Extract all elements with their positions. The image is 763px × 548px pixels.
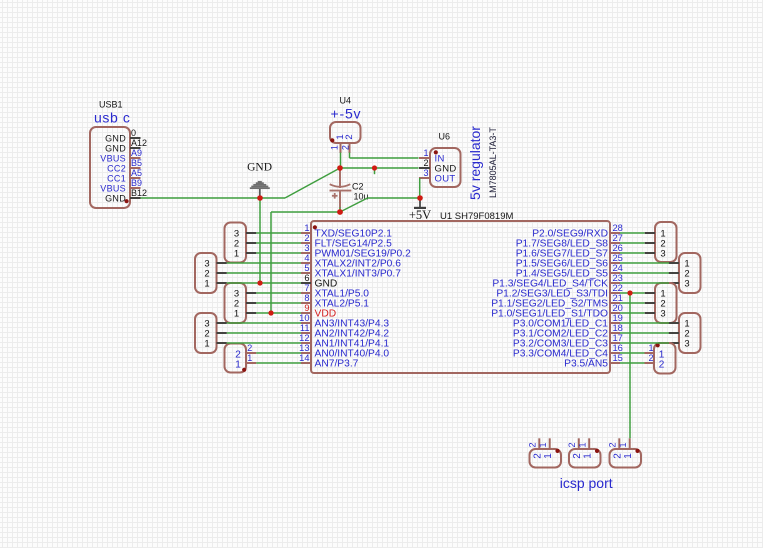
wire U1 pin16 to P5: [620, 352, 645, 354]
svg-text:2: 2: [344, 134, 355, 139]
U1 pin 26 number: [613, 243, 623, 253]
wire +5V node to diagonal: [368, 197, 420, 199]
U1 pin 15 name P3.5/AN5: [564, 359, 608, 370]
USB1 pin A12 number: [131, 138, 147, 148]
U1 pin 21 stub: [610, 302, 620, 304]
wire U1 pin22 net down to icsp: [629, 293, 631, 438]
U6 pin name GND: [435, 163, 457, 174]
svg-text:18: 18: [613, 323, 623, 333]
svg-text:2: 2: [304, 233, 309, 243]
svg-text:B9: B9: [131, 178, 142, 188]
svg-text:P3.5/AN5: P3.5/AN5: [564, 359, 608, 370]
svg-text:21: 21: [613, 293, 623, 303]
connector P1 pin name 2: [660, 238, 665, 249]
U1 pin 17 stub: [610, 342, 620, 344]
connector L2 pin name 2: [204, 268, 209, 279]
svg-text:1: 1: [582, 453, 593, 459]
connector P4 body: [679, 313, 701, 353]
USB1 pin name GND: [105, 133, 126, 143]
svg-text:1: 1: [247, 353, 252, 363]
wire U1 pin17 to P4: [620, 342, 669, 344]
svg-text:1: 1: [330, 145, 340, 150]
U1 pin 28 stub: [610, 232, 620, 234]
connector L5 pin-1 marker dot: [242, 368, 246, 372]
U1 pin 23 name P1.3/SEG4/LED_S4/TCK: [492, 279, 608, 290]
USB1 pin B9 (VBUS) stub: [130, 187, 141, 189]
svg-text:VBUS: VBUS: [100, 153, 126, 163]
wire L1 pin1 to U1 pin3: [256, 252, 301, 254]
connector P1 pin name 1: [660, 228, 665, 239]
wire L3 pin3 to U1 pin7: [256, 292, 301, 294]
connector P5 pin 2 stub: [645, 362, 655, 364]
svg-text:A9: A9: [131, 148, 142, 158]
connector L5 pin 2 number (outside): [247, 343, 252, 353]
svg-text:3: 3: [660, 308, 665, 319]
U6 pin 1 number: [423, 148, 428, 158]
U4 pin-1 marker dot: [330, 138, 334, 142]
U1 pin 7 name XTAL1/P5.0: [315, 289, 370, 300]
wire L4 pin3 to U1 pin10: [227, 322, 301, 324]
wire L3 pin1 to U1 pin9 VDD: [256, 312, 301, 314]
connector L4 pin name 3: [204, 318, 209, 329]
wire GND net: L2 pin1 to U1 pin6: [227, 282, 301, 284]
U6 pin 2 stub: [419, 167, 430, 169]
wire U4 pin2 drop: [349, 153, 351, 159]
wire U1 pin27 to P1: [620, 242, 645, 244]
wire U1 pin18 to P4: [620, 332, 669, 334]
svg-text:+-5v: +-5v: [331, 106, 362, 122]
svg-text:USB1: USB1: [99, 100, 123, 110]
U6 vertical label 5v regulator: [467, 126, 483, 200]
wire C2 bottom node left: [271, 211, 340, 213]
U1 pin 12 number: [299, 333, 309, 343]
connector J1 pin 1 number (outside): [538, 442, 548, 447]
USB1 pin 0 number: [131, 128, 136, 138]
connector J2 pin name 2: [572, 453, 583, 459]
svg-text:12: 12: [299, 333, 309, 343]
svg-text:3: 3: [684, 278, 689, 289]
USB1 pin B9 number: [131, 178, 142, 188]
connector P4 pin name 3: [684, 338, 689, 349]
connector P5 body: [654, 343, 676, 374]
U1 pin 25 stub: [610, 262, 620, 264]
USB1 pin B5 number: [131, 158, 142, 168]
connector J3 pin 2 number (outside): [608, 442, 618, 447]
connector P3 pin name 1: [660, 288, 665, 299]
IC U1 body: [311, 221, 610, 373]
connector P3 pin name 3: [660, 308, 665, 319]
connector L2 pin 1 stub: [217, 282, 227, 284]
U1 pin 6 name GND: [315, 279, 338, 290]
U1 pin 26 stub: [610, 252, 620, 254]
U6 vertical label LM7805AL-TA3-T: [488, 127, 498, 198]
U1 pin 20 number: [613, 303, 623, 313]
U1 pin 4 stub: [301, 262, 311, 264]
connector L1 pin name 2: [234, 238, 239, 249]
U1 pin 8 name XTAL2/P5.1: [315, 299, 370, 310]
svg-text:B5: B5: [131, 158, 142, 168]
connector P4 pin 3 stub: [669, 342, 679, 344]
U1 pin 23 number: [613, 273, 623, 283]
power symbol +5V: [414, 201, 426, 208]
U1 pin 15 stub: [610, 362, 620, 364]
USB1 pin A9 number: [131, 148, 142, 158]
connector J3 body: [610, 449, 642, 468]
connector P5 pin name 2: [659, 359, 665, 370]
capacitor C2 curved plate: [330, 184, 351, 187]
junction dot on GND-IN wire: [372, 165, 377, 170]
capacitor C2 bottom lead: [339, 191, 341, 212]
U1 pin-1 marker dot: [313, 225, 317, 229]
U1 pin 5 name XTALX1/INT3/P0.7: [315, 269, 402, 280]
wire U4 pin2 to U6 pin1 IN: [350, 157, 419, 159]
svg-text:24: 24: [613, 263, 623, 273]
connector P5 pin-1 marker dot: [656, 343, 660, 347]
connector L5 pin 1 number (outside): [247, 353, 252, 363]
junction dot GND/U4/C2 node: [337, 165, 343, 171]
U1 pin 25 number: [613, 253, 623, 263]
U1 pin 5 number: [304, 263, 309, 273]
USB1 pin name GND: [105, 143, 126, 153]
svg-text:2: 2: [659, 359, 665, 370]
USB1 pin B12 number: [131, 188, 147, 198]
wire L4 pin2 to U1 pin11: [227, 332, 301, 334]
U1 pin 28 name P2.0/SEG9/RXD: [532, 229, 608, 240]
U1 pin 20 stub: [610, 312, 620, 314]
U1 pin 3 stub: [301, 252, 311, 254]
connector P4 pin 1 stub: [669, 322, 679, 324]
U1 pin 27 number: [613, 233, 623, 243]
wire L1 pin2 to U1 pin2: [256, 242, 301, 244]
svg-text:U6: U6: [439, 132, 451, 142]
U1 pin 1 name TXD/SEG10P2.1: [315, 229, 393, 240]
connector L1 pin name 3: [234, 228, 239, 239]
svg-text:1: 1: [648, 343, 653, 353]
connector J3 pin name 2: [613, 453, 624, 459]
wire L3 pin2 to U1 pin8: [256, 302, 301, 304]
U1 pin 2 stub: [301, 242, 311, 244]
connector L2 pin 3 stub: [217, 262, 227, 264]
U1 pin 10 stub: [301, 322, 311, 324]
svg-text:1: 1: [235, 359, 241, 370]
svg-text:usb c: usb c: [94, 110, 130, 126]
svg-text:15: 15: [613, 353, 623, 363]
connector L3 pin 3 stub: [246, 292, 256, 294]
connector L4 pin 1 stub: [217, 342, 227, 344]
U4 value label +-5v: [331, 106, 362, 122]
connector L1 body: [225, 223, 247, 263]
USB1 pin name GND: [105, 193, 126, 203]
connector L3 pin 2 stub: [246, 302, 256, 304]
U1 pin 17 number: [613, 333, 623, 343]
svg-text:GND: GND: [247, 162, 272, 174]
svg-text:9: 9: [304, 303, 309, 313]
svg-text:2: 2: [572, 453, 583, 459]
USB1 pin B5 (CC2) stub: [130, 167, 141, 169]
connector J2 body: [569, 449, 601, 468]
connector P1 pin 3 stub: [645, 252, 655, 254]
U1 pin 13 number: [299, 343, 309, 353]
wire L2 pin3 to U1 pin4: [227, 262, 301, 264]
svg-text:13: 13: [299, 343, 309, 353]
U1 pin 6 stub: [301, 282, 311, 284]
svg-text:1: 1: [538, 442, 548, 447]
svg-text:3: 3: [684, 338, 689, 349]
svg-text:CC1: CC1: [107, 173, 126, 183]
U1 pin 14 name AN7/P3.7: [315, 359, 359, 370]
regulator U6 body: [430, 148, 461, 187]
svg-text:1: 1: [234, 248, 239, 259]
U1 pin 22 stub: [610, 292, 620, 294]
connector J2 pin 2 stub: [578, 438, 580, 449]
U1 pin 7 number: [304, 283, 309, 293]
connector J3 pin 1 stub: [629, 438, 631, 449]
junction dot VDD row: [268, 310, 273, 315]
connector P3 pin 3 stub: [645, 312, 655, 314]
USB1 pin A5 number: [131, 168, 142, 178]
U1 pin 16 name P3.3/COM4/LED_C4: [513, 349, 608, 360]
U1 pin 19 stub: [610, 322, 620, 324]
U1 pin 9 name VDD: [315, 309, 337, 320]
U1 pin 4 number: [304, 253, 309, 263]
svg-text:AN7/P3.7: AN7/P3.7: [315, 359, 359, 370]
U1 pin 24 number: [613, 263, 623, 273]
ground symbol: [250, 181, 270, 197]
U1 pin 28 number: [613, 223, 623, 233]
svg-text:1: 1: [204, 338, 209, 349]
U1 pin 11 stub: [301, 332, 311, 334]
U1 pin 11 name AN2/INT42/P4.2: [315, 329, 390, 340]
connector L5 pin name 2: [235, 349, 241, 360]
connector L2 body: [195, 253, 217, 293]
U1 pin 24 stub: [610, 272, 620, 274]
wire U1 pin26 to P1: [620, 252, 645, 254]
svg-text:2: 2: [341, 145, 351, 150]
wire stub below node on GND-IN wire: [374, 168, 376, 174]
power label +5V: [409, 208, 431, 222]
U1 pin 1 number: [304, 223, 309, 233]
junction dot icsp net: [627, 290, 632, 295]
USB1 pin 0 (GND) stub: [130, 137, 141, 139]
svg-text:25: 25: [613, 253, 623, 263]
wire vertical +5V to VDD row: [270, 212, 272, 313]
U4 reference label: [340, 96, 352, 106]
svg-text:CC2: CC2: [107, 163, 126, 173]
U6 pin 3 stub: [419, 177, 430, 179]
U1 pin 6 number: [304, 273, 309, 283]
wire L2 pin2 to U1 pin5: [227, 272, 301, 274]
wire GND net: USB B12 to corner: [141, 197, 286, 199]
U1 pin 21 name P1.1/SEG2/LED_S2/TMS: [491, 299, 608, 310]
U1 pin 17 name P3.2/COM3/LED_C3: [513, 339, 608, 350]
connector U4 body: [330, 122, 361, 143]
svg-text:1: 1: [543, 453, 554, 459]
connector P3 pin name 2: [660, 298, 665, 309]
connector L5 pin 1 stub: [246, 362, 256, 364]
connector L3 pin name 3: [234, 288, 239, 299]
connector L4 pin name 2: [204, 328, 209, 339]
connector P1 pin 2 stub: [645, 242, 655, 244]
svg-text:10u: 10u: [354, 192, 369, 202]
U6 pin name OUT: [435, 173, 456, 184]
svg-text:2: 2: [613, 453, 624, 459]
connector P2 pin name 2: [684, 268, 689, 279]
USB1 pin A5 (CC1) stub: [130, 177, 141, 179]
U1 pin 2 name FLT/SEG14/P2.5: [315, 239, 393, 250]
svg-text:U1 SH79F0819M: U1 SH79F0819M: [440, 211, 513, 222]
svg-text:10: 10: [299, 313, 309, 323]
svg-text:2: 2: [423, 158, 428, 168]
connector J2 pin 2 number (outside): [567, 442, 577, 447]
U6 reference label: [439, 132, 451, 142]
wire diagonal to C2 bottom node: [340, 198, 368, 212]
svg-text:2: 2: [247, 343, 252, 353]
svg-text:6: 6: [304, 273, 309, 283]
U1 pin 27 stub: [610, 242, 620, 244]
svg-text:3: 3: [423, 168, 428, 178]
capacitor C2 plus sign: [332, 193, 338, 199]
svg-text:2: 2: [608, 442, 618, 447]
U4 pin 1 number (outside): [330, 145, 340, 150]
connector P3 pin 2 stub: [645, 302, 655, 304]
svg-text:27: 27: [613, 233, 623, 243]
svg-text:5: 5: [304, 263, 309, 273]
wire U1 pin21 to P3: [620, 302, 645, 304]
wire L1 pin3 to U1 pin1: [256, 232, 301, 234]
connector J1 pin-1 marker dot: [555, 449, 559, 453]
USB1 pin name CC1: [107, 173, 126, 183]
svg-text:16: 16: [613, 343, 623, 353]
connector L1 pin name 1: [234, 248, 239, 259]
U1 pin 22 name P1.2/SEG3/LED_S3/TDI: [496, 289, 608, 300]
U1 pin 18 stub: [610, 332, 620, 334]
svg-text:1: 1: [623, 453, 634, 459]
wire GND net: diagonal up to U4/C2 node: [285, 168, 340, 198]
svg-text:5v regulator: 5v regulator: [467, 126, 483, 200]
svg-text:GND: GND: [105, 143, 126, 153]
svg-text:B12: B12: [131, 188, 147, 198]
U6 pin 3 number: [423, 168, 428, 178]
connector P2 pin 1 stub: [669, 262, 679, 264]
U4 pin 2 number (outside): [341, 145, 351, 150]
svg-text:7: 7: [304, 283, 309, 293]
svg-text:C2: C2: [352, 181, 364, 191]
U1 pin 16 stub: [610, 352, 620, 354]
svg-text:3: 3: [304, 243, 309, 253]
U1 pin 20 name P1.0/SEG1/LED_S1/TDO: [491, 309, 608, 320]
USB1 pin-1 marker dot: [125, 199, 129, 203]
connector P5 pin 1 stub: [645, 352, 655, 354]
connector J2 pin 1 stub: [588, 438, 590, 449]
label icsp port: [560, 475, 613, 491]
U1 pin 19 name P3.0/COM1/LED_C1: [513, 319, 608, 330]
U4 pin 1 stub: [340, 143, 342, 153]
U1 pin 12 stub: [301, 342, 311, 344]
connector L3 body: [225, 283, 247, 323]
connector J1 body: [530, 449, 562, 468]
svg-text:1: 1: [423, 148, 428, 158]
U4 pin name 1 (inside): [335, 134, 346, 139]
connector J2 pin 1 number (outside): [578, 442, 588, 447]
U1 pin 25 name P1.5/SEG6/LED_S6: [516, 259, 609, 270]
svg-text:+5V: +5V: [409, 208, 431, 222]
svg-text:2: 2: [528, 442, 538, 447]
connector J1 pin name 2: [533, 453, 544, 459]
U1 pin 18 number: [613, 323, 623, 333]
U1 pin 19 number: [613, 313, 623, 323]
svg-text:U4: U4: [340, 96, 352, 106]
U6 pin 2 number: [423, 158, 428, 168]
U1 pin 10 number: [299, 313, 309, 323]
svg-text:23: 23: [613, 273, 623, 283]
connector P5 pin 2 number (outside): [648, 353, 653, 363]
connector L1 pin 3 stub: [246, 232, 256, 234]
junction dot +5V node: [417, 195, 423, 201]
svg-text:14: 14: [299, 353, 309, 363]
U1 pin 8 stub: [301, 302, 311, 304]
svg-text:OUT: OUT: [435, 173, 456, 184]
U1 pin 24 name P1.4/SEG5/LED_S5: [516, 269, 609, 280]
ground label GND: [247, 162, 272, 174]
svg-text:17: 17: [613, 333, 623, 343]
wire GND net: U4 pin1 drop: [340, 153, 342, 169]
connector USB1 (usb c) body: [90, 127, 130, 208]
wire L4 pin1 to U1 pin12: [227, 342, 301, 344]
U1 pin 11 number: [300, 323, 310, 333]
connector L5 body: [225, 344, 247, 373]
U1 pin 14 stub: [301, 362, 311, 364]
U1 pin 10 name AN3/INT43/P4.3: [315, 319, 390, 330]
svg-text:1: 1: [234, 308, 239, 319]
wire GND net: vertical to U1 GND row: [259, 198, 261, 283]
connector USB1 label USB1: [99, 100, 123, 110]
U1 pin 13 name AN0/INT40/P4.0: [315, 349, 390, 360]
connector P2 pin 2 stub: [669, 272, 679, 274]
U1 pin 15 number: [613, 353, 623, 363]
svg-text:1: 1: [618, 442, 628, 447]
connector L2 pin 2 stub: [217, 272, 227, 274]
wire L5 pin1 to U1 pin14: [256, 362, 301, 364]
connector L5 pin name 1: [235, 359, 241, 370]
connector J3 pin 1 number (outside): [618, 442, 628, 447]
wire GND net: node to U6 pin2: [340, 167, 419, 169]
capacitor C2 straight plate: [330, 190, 352, 192]
wire U1 pin19 to P4: [620, 322, 669, 324]
connector L4 pin 3 stub: [217, 322, 227, 324]
U6 pin-1 marker dot: [434, 150, 438, 154]
connector J3 pin name 1: [623, 453, 634, 459]
wire U1 pin15 to P5: [620, 362, 645, 364]
U1 pin 16 number: [613, 343, 623, 353]
junction dot U1 GND row: [257, 280, 262, 285]
wire U1 pin28 to P1: [620, 232, 645, 234]
U1 pin 4 name XTALX2/INT2/P0.6: [315, 259, 402, 270]
svg-text:3: 3: [660, 248, 665, 259]
junction dot C2 bottom node: [337, 209, 343, 215]
connector P2 body: [679, 253, 701, 293]
svg-text:2: 2: [648, 353, 653, 363]
connector P3 body: [655, 283, 677, 323]
C2 value label 10u: [354, 192, 369, 202]
USB1 pin B12 (GND) stub: [130, 197, 141, 199]
U1 pin 8 number: [304, 293, 309, 303]
U1 pin 3 name PWM01/SEG19/P0.2: [315, 249, 412, 260]
connector P5 pin 1 number (outside): [648, 343, 653, 353]
U1 pin 7 stub: [301, 292, 311, 294]
USB1 pin name VBUS: [100, 183, 126, 193]
connector P3 pin 1 stub: [645, 292, 655, 294]
svg-text:28: 28: [613, 223, 623, 233]
